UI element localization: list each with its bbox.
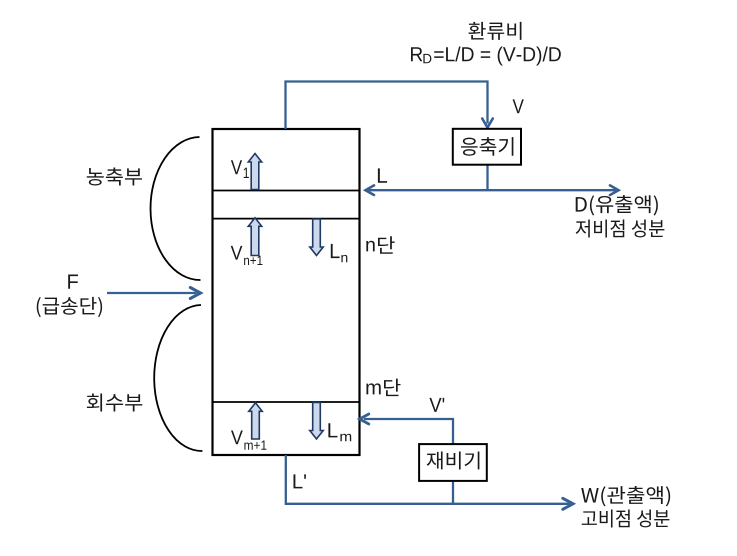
wire: condenser outlet drop <box>486 165 488 191</box>
label Vn+1 subscript n+1 <box>244 256 262 265</box>
label Vm+1 <box>231 431 243 445</box>
arrowhead V' into column <box>360 414 369 424</box>
vapor arrow Vn+1 <box>248 218 261 256</box>
brace arc rectifying section <box>151 137 201 280</box>
formula =L/D = (V-D)/D <box>434 46 561 65</box>
label V1 <box>231 160 242 174</box>
bottoms label W(관출액) <box>581 486 670 506</box>
wire: overhead vapor pipe <box>286 82 488 130</box>
condenser label 응축기 <box>461 137 513 156</box>
distillate label 저비점 성분 <box>576 220 665 238</box>
arrowhead W outlet <box>563 498 573 509</box>
wire: boilup V' line <box>364 419 453 444</box>
liquid arrow Ln <box>310 219 323 256</box>
column tray line 3 (m-stage) <box>213 401 360 403</box>
reboiler label 재비기 <box>427 452 480 470</box>
distillate label D(유출액) <box>576 195 658 215</box>
brace arc stripping section <box>154 305 202 451</box>
column tray line 1 <box>213 190 360 192</box>
label Vn+1 <box>231 246 243 260</box>
reboiler box U2 <box>419 444 487 481</box>
label F (feed) <box>68 274 78 288</box>
arrowhead L to column <box>366 185 375 195</box>
vapor arrow V1 <box>248 154 261 190</box>
label Vm+1 subscript m+1 <box>244 441 266 450</box>
feed label (급송단) <box>37 297 102 317</box>
distillation column body <box>213 129 360 455</box>
section label 회수부 <box>87 394 142 412</box>
bottoms label 고비점 성분 <box>582 510 670 528</box>
label Ln <box>331 244 340 258</box>
arrowhead D outlet <box>610 185 619 195</box>
label Lm subscript m <box>340 434 351 442</box>
label V (vapor to condenser) <box>513 99 524 113</box>
label m of m단 <box>366 383 380 394</box>
liquid arrow Lm <box>310 403 323 440</box>
vapor arrow Vm+1 <box>249 403 262 439</box>
wire: bottoms L' / W line <box>286 455 570 504</box>
label Ln subscript n <box>341 255 347 262</box>
column tray line 2 (n-stage) <box>213 218 360 220</box>
arrowhead feed into column <box>190 288 200 299</box>
formula subscript D <box>423 54 431 63</box>
section label 농축부 <box>87 168 142 186</box>
condenser box U1 <box>453 129 521 165</box>
wire: reboiler drop line <box>452 481 454 504</box>
arrowhead into condenser <box>482 119 493 128</box>
wire: feed F line <box>107 292 197 294</box>
label V1 subscript 1 <box>244 168 249 178</box>
label L' (bottoms liquid) <box>293 474 305 488</box>
label Lm <box>328 423 337 437</box>
title 환류비 <box>468 22 521 40</box>
label n of n단 <box>366 241 374 252</box>
label 단 of n단 <box>378 236 395 254</box>
label V' (boilup) <box>429 398 444 412</box>
formula R <box>411 47 422 61</box>
wire: reflux L / distillate D line <box>368 189 616 191</box>
label L (reflux) <box>378 168 387 182</box>
label 단 of m단 <box>384 379 401 397</box>
